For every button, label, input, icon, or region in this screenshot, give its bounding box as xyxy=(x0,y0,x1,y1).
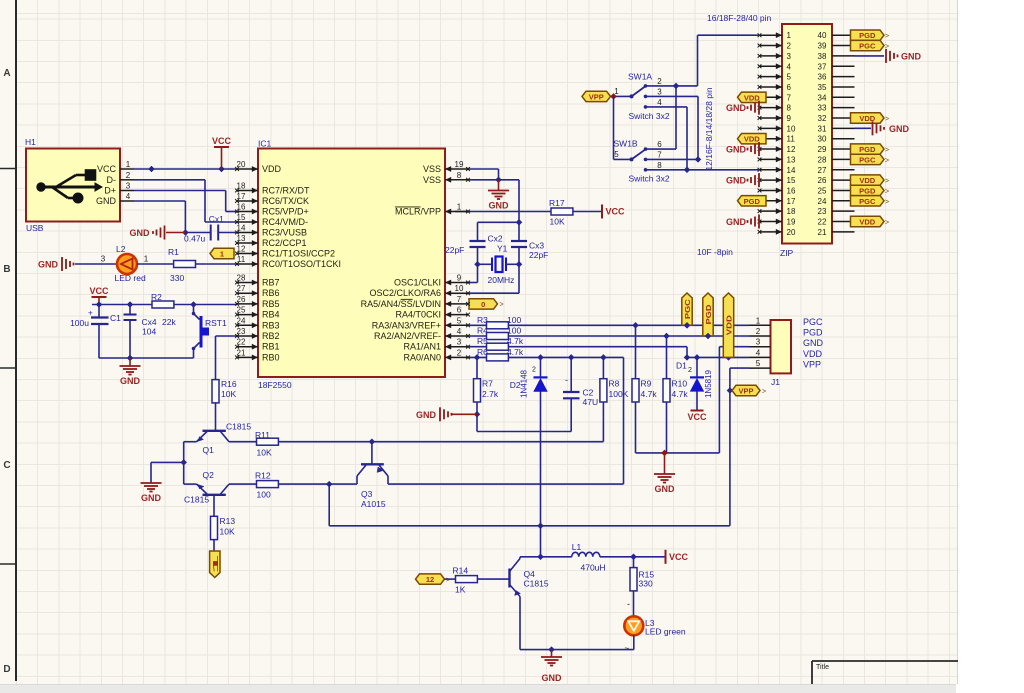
svg-text:>: > xyxy=(885,33,889,40)
svg-text:VSS: VSS xyxy=(423,175,441,185)
LED L3 (green) xyxy=(624,616,686,636)
svg-text:C: C xyxy=(3,460,10,471)
svg-text:R1: R1 xyxy=(168,247,179,257)
svg-text:GND: GND xyxy=(416,410,437,420)
wire to ground (Q1/Q2 emitters) xyxy=(151,462,184,483)
wire bottom rail xyxy=(520,647,634,653)
svg-text:17: 17 xyxy=(787,197,796,206)
svg-text:Q1: Q1 xyxy=(203,445,215,455)
ZIF pin 7 xyxy=(758,93,792,102)
connector J1 xyxy=(749,316,824,387)
wire VSS to crystal caps xyxy=(478,180,523,241)
ZIF pin 19 xyxy=(758,218,796,227)
wire VPP switched run xyxy=(329,484,730,529)
ground symbol VSS xyxy=(488,180,509,211)
svg-text:2: 2 xyxy=(657,77,662,86)
ZIF pin 4 xyxy=(758,62,792,71)
ground symbol at ZIF pin 31 xyxy=(855,121,910,135)
svg-text:>: > xyxy=(885,147,889,154)
wire R16 to Q1 base xyxy=(215,403,217,430)
ground symbol at ZIF pin 19 xyxy=(726,215,759,229)
svg-text:GND: GND xyxy=(726,103,747,113)
pin 22 RB1 xyxy=(235,338,279,352)
switch SW1B xyxy=(614,139,670,184)
svg-text:1: 1 xyxy=(126,160,131,169)
svg-text:>: > xyxy=(885,116,889,123)
resistor R7 2.7k xyxy=(474,354,499,402)
wire SW1B pin6 up xyxy=(646,86,677,149)
svg-text:39: 39 xyxy=(818,42,827,51)
svg-text:GND: GND xyxy=(130,228,151,238)
svg-text:VSS: VSS xyxy=(423,164,441,174)
svg-text:~: ~ xyxy=(625,644,630,653)
svg-text:GND: GND xyxy=(141,493,162,503)
svg-text:VCC: VCC xyxy=(669,552,689,562)
svg-text:11: 11 xyxy=(237,255,246,264)
svg-text:RC5/VP/D+: RC5/VP/D+ xyxy=(262,207,309,217)
wire SW1B pin7 xyxy=(646,158,699,160)
svg-text:1K: 1K xyxy=(455,585,466,595)
svg-text:RC3/VUSB: RC3/VUSB xyxy=(262,228,307,238)
power VCC (top) xyxy=(212,136,232,169)
wire LED to R1 xyxy=(137,255,174,265)
svg-text:C1815: C1815 xyxy=(226,422,251,432)
wire R13 to port xyxy=(213,540,215,551)
svg-text:100K: 100K xyxy=(609,389,629,399)
svg-text:RC4/VM/D-: RC4/VM/D- xyxy=(262,217,308,227)
port VDD at ZIF pin 11 xyxy=(738,134,767,144)
svg-text:104: 104 xyxy=(142,327,156,337)
wire Q2 base to R13 xyxy=(213,495,215,517)
power VCC at L1 xyxy=(666,550,689,564)
svg-text:10: 10 xyxy=(455,284,464,293)
svg-text:GND: GND xyxy=(726,176,747,186)
svg-text:C1815: C1815 xyxy=(524,579,549,589)
ZIF pin 34 xyxy=(818,93,855,102)
svg-text:470uH: 470uH xyxy=(581,563,606,573)
svg-text:100u: 100u xyxy=(70,318,89,328)
svg-text:VCC: VCC xyxy=(89,286,109,296)
svg-text:26: 26 xyxy=(237,295,246,304)
svg-text:RA2/AN2/VREF-: RA2/AN2/VREF- xyxy=(374,331,441,341)
wire Q4 collector row xyxy=(520,554,572,560)
resistor R10 4.7k xyxy=(663,333,688,453)
svg-text:1N5819: 1N5819 xyxy=(704,369,713,398)
wire R15 to LED xyxy=(627,591,634,616)
pin 13 RC2/CCP1 xyxy=(235,234,306,248)
svg-text:ZIP: ZIP xyxy=(780,248,794,258)
capacitor Cx2 22pF xyxy=(445,234,503,265)
svg-text:VDD: VDD xyxy=(803,349,823,359)
port VPP (bottom) xyxy=(732,385,766,395)
svg-text:PGD: PGD xyxy=(744,197,761,206)
svg-text:GND: GND xyxy=(889,124,910,134)
ZIF pin 11 xyxy=(758,135,796,144)
ZIF pin 20 xyxy=(758,228,796,237)
svg-text:22: 22 xyxy=(237,338,246,347)
svg-text:24: 24 xyxy=(818,197,827,206)
pin 28 RB7 xyxy=(235,274,279,288)
svg-text:VCC: VCC xyxy=(97,164,117,174)
port VPP at switch xyxy=(582,91,611,101)
wire J1 pin5 VPP down xyxy=(727,368,749,526)
svg-text:5: 5 xyxy=(614,150,619,159)
label 16/18F-28/40 pin xyxy=(707,13,772,23)
svg-text:16: 16 xyxy=(787,186,796,195)
svg-text:RC1/T1OSI/CCP2: RC1/T1OSI/CCP2 xyxy=(262,249,335,259)
svg-text:PGC: PGC xyxy=(803,317,823,327)
svg-text:R3: R3 xyxy=(477,315,488,325)
svg-text:21: 21 xyxy=(237,348,246,357)
svg-text:3: 3 xyxy=(457,338,462,347)
resistor R5 4.7k xyxy=(468,336,524,350)
svg-text:RB2: RB2 xyxy=(262,331,280,341)
pin 11 RC0/T1OSO/T1CKI xyxy=(235,255,341,269)
svg-text:2: 2 xyxy=(126,171,131,180)
svg-text:20: 20 xyxy=(237,160,246,169)
svg-text:PGD: PGD xyxy=(803,328,823,338)
port below R13 xyxy=(210,551,220,578)
wire MCLR to R17 xyxy=(455,211,551,213)
ZIF pin 10 xyxy=(758,124,796,133)
svg-text:Cx3: Cx3 xyxy=(529,241,544,251)
svg-text:4.7k: 4.7k xyxy=(672,389,689,399)
svg-text:1: 1 xyxy=(756,316,761,325)
ZIF pin 1 xyxy=(758,31,792,40)
port VDD at ZIF pin 22 xyxy=(851,216,890,226)
svg-text:PGD: PGD xyxy=(859,145,876,154)
svg-text:7: 7 xyxy=(787,93,792,102)
svg-text:19: 19 xyxy=(787,218,796,227)
svg-text:Cx2: Cx2 xyxy=(488,234,503,244)
svg-text:1: 1 xyxy=(220,250,224,259)
svg-text:D1: D1 xyxy=(676,361,687,371)
svg-text:>: > xyxy=(446,577,450,584)
svg-text:29: 29 xyxy=(818,145,827,154)
port at RC1 xyxy=(210,248,234,258)
svg-text:40: 40 xyxy=(818,31,827,40)
svg-text:6: 6 xyxy=(457,306,462,315)
svg-text:25: 25 xyxy=(818,186,827,195)
svg-text:10K: 10K xyxy=(221,389,236,399)
wire R6 row (VPP raw) xyxy=(508,357,623,484)
pin 1 MCLR/VPP xyxy=(395,203,470,217)
ground symbol at ZIF pin 38 xyxy=(855,49,922,63)
pin 20 VDD xyxy=(235,160,281,174)
resistor R2 22k xyxy=(151,292,176,327)
resistor R1 330 xyxy=(168,247,196,283)
svg-text:VCC: VCC xyxy=(606,207,626,217)
svg-text:26: 26 xyxy=(818,176,827,185)
svg-text:>: > xyxy=(500,302,504,309)
svg-text:3: 3 xyxy=(126,182,131,191)
crystal Y1 20MHz xyxy=(475,244,523,286)
svg-text:2: 2 xyxy=(457,348,462,357)
svg-text:H1: H1 xyxy=(25,137,36,147)
wire bottom rail to ground xyxy=(99,355,194,361)
diode D1 1N5819 xyxy=(676,354,713,409)
title block xyxy=(812,661,958,684)
svg-text:4: 4 xyxy=(657,98,662,107)
svg-text:34: 34 xyxy=(818,93,827,102)
svg-text:Switch 3x2: Switch 3x2 xyxy=(629,111,670,121)
svg-text:GND: GND xyxy=(489,201,510,211)
ZIF pin 23 xyxy=(818,207,855,216)
svg-text:0: 0 xyxy=(481,300,485,309)
svg-text:VPP: VPP xyxy=(589,92,604,101)
svg-text:GND: GND xyxy=(655,484,676,494)
svg-text:OSC1/CLKI: OSC1/CLKI xyxy=(394,278,441,288)
wire R11 to R8 (long) xyxy=(278,439,603,445)
svg-text:>: > xyxy=(885,220,889,227)
svg-text:20MHz: 20MHz xyxy=(488,275,515,285)
svg-text:VDD: VDD xyxy=(859,176,875,185)
wire R14 to Q4 xyxy=(477,578,508,580)
port at RA5 xyxy=(469,299,504,309)
port PGD at ZIF pin 29 xyxy=(851,144,890,154)
ground symbol at Cx1 xyxy=(130,226,186,240)
svg-text:R12: R12 xyxy=(255,471,271,481)
svg-text:20: 20 xyxy=(787,228,796,237)
wire Q4 emitter down xyxy=(519,597,521,650)
ground symbol below Cx4 xyxy=(120,358,141,386)
svg-text:RC2/CCP1: RC2/CCP1 xyxy=(262,238,307,248)
svg-text:USB: USB xyxy=(26,223,44,233)
svg-text:3: 3 xyxy=(101,255,106,264)
svg-text:13: 13 xyxy=(787,155,796,164)
resistor R16 10K xyxy=(212,379,237,403)
svg-text:>: > xyxy=(762,389,766,396)
transistor Q1 C1815 xyxy=(197,422,252,456)
svg-text:24: 24 xyxy=(237,316,246,325)
svg-text:23: 23 xyxy=(818,207,827,216)
capacitor Cx3 22pF xyxy=(511,241,548,265)
svg-text:4.7k: 4.7k xyxy=(507,347,524,357)
svg-text:38: 38 xyxy=(818,52,827,61)
svg-text:1: 1 xyxy=(614,87,619,96)
transistor Q3 A1015 xyxy=(357,442,388,509)
svg-text:R9: R9 xyxy=(641,379,652,389)
sheet border line xyxy=(0,0,16,681)
resistor R9 4.7k xyxy=(632,322,657,453)
diode D2 1N4148 xyxy=(510,354,548,556)
capacitor C2 47U xyxy=(563,354,598,431)
ZIF pin 28 xyxy=(818,155,855,164)
wire L1 to VCC xyxy=(600,554,665,560)
svg-text:R17: R17 xyxy=(549,198,565,208)
svg-text:22pF: 22pF xyxy=(445,245,464,255)
svg-text:GND: GND xyxy=(542,673,563,683)
svg-text:1: 1 xyxy=(211,555,220,574)
ZIF pin 3 xyxy=(758,52,792,61)
svg-text:6: 6 xyxy=(787,83,792,92)
wire R7 bottom rail xyxy=(474,402,571,432)
svg-text:>: > xyxy=(885,199,889,206)
wire VCC rail to RB5 xyxy=(92,302,237,308)
svg-text:3: 3 xyxy=(756,338,761,347)
ZIF pin 14 xyxy=(758,166,796,175)
ZIF pin 40 xyxy=(818,31,855,40)
wire SW1A pin2 to ZIF pin1 xyxy=(646,35,760,89)
svg-text:2: 2 xyxy=(688,367,692,374)
port VDD (vertical) xyxy=(723,293,733,357)
svg-text:4.7k: 4.7k xyxy=(507,336,524,346)
svg-text:8: 8 xyxy=(657,161,662,170)
svg-text:C1: C1 xyxy=(110,313,121,323)
port PGD (vertical) xyxy=(703,293,713,339)
wire SW1A pin4 down to pin8 row xyxy=(646,107,691,173)
ZIF pin 15 xyxy=(758,176,796,185)
svg-text:22: 22 xyxy=(818,218,827,227)
svg-text:11: 11 xyxy=(787,135,796,144)
wire PGC row (R3 to J1 pin1) xyxy=(508,322,749,328)
svg-text:C2: C2 xyxy=(583,388,594,398)
svg-text:1: 1 xyxy=(457,203,462,212)
svg-text:RA1/AN1: RA1/AN1 xyxy=(403,342,441,352)
svg-text:VDD: VDD xyxy=(262,164,282,174)
ZIF pin 24 xyxy=(818,197,855,206)
svg-text:RC6/TX/CK: RC6/TX/CK xyxy=(262,196,309,206)
power VCC (left) xyxy=(89,286,109,305)
port VDD at ZIF pin 26 xyxy=(851,175,890,185)
resistor R3 100 xyxy=(468,315,521,329)
svg-text:100: 100 xyxy=(507,315,521,325)
svg-text:1: 1 xyxy=(787,31,792,40)
wire R1 to RC0 xyxy=(196,263,238,265)
svg-text:VDD: VDD xyxy=(859,218,875,227)
resistor R8 100K xyxy=(600,354,629,441)
svg-text:D-: D- xyxy=(107,175,117,185)
svg-text:16: 16 xyxy=(237,203,246,212)
svg-text:J1: J1 xyxy=(771,377,780,387)
svg-text:SW1B: SW1B xyxy=(614,139,638,149)
svg-text:C1815: C1815 xyxy=(184,495,209,505)
wire USB GND down to Cx1 rail xyxy=(134,201,188,236)
ground symbol at ZIF pin 15 xyxy=(726,173,759,187)
svg-text:VPP: VPP xyxy=(738,387,753,396)
svg-text:8: 8 xyxy=(457,171,462,180)
svg-text:R2: R2 xyxy=(151,292,162,302)
svg-text:Q2: Q2 xyxy=(203,470,215,480)
ZIF pin 35 xyxy=(818,83,855,92)
transistor Q2 C1815 xyxy=(184,470,229,505)
svg-text:R8: R8 xyxy=(609,379,620,389)
svg-text:2: 2 xyxy=(532,367,536,374)
svg-text:18: 18 xyxy=(237,182,246,191)
svg-text:RA3/AN3/VREF+: RA3/AN3/VREF+ xyxy=(372,320,441,330)
svg-text:RB5: RB5 xyxy=(262,299,280,309)
svg-text:R4: R4 xyxy=(477,326,488,336)
svg-text:14: 14 xyxy=(787,166,796,175)
resistor R12 100 xyxy=(229,471,278,500)
inductor L1 470uH xyxy=(572,542,606,573)
svg-text:12/16F-8/14/18/28 pin: 12/16F-8/14/18/28 pin xyxy=(704,87,714,170)
resistor R13 10K xyxy=(211,516,236,540)
svg-text:4.7k: 4.7k xyxy=(641,389,658,399)
svg-text:330: 330 xyxy=(639,579,653,589)
svg-text:PGD: PGD xyxy=(704,304,713,325)
wire divider ground rail xyxy=(636,347,720,456)
svg-text:R11: R11 xyxy=(255,430,270,440)
svg-text:GND: GND xyxy=(726,145,747,155)
wire R17 to VCC xyxy=(573,211,601,213)
svg-text:VCC: VCC xyxy=(687,412,707,422)
svg-text:1N4148: 1N4148 xyxy=(520,369,529,398)
IC U1 (IC1 18F2550) xyxy=(258,139,445,391)
ZIF pin 2 xyxy=(758,42,792,51)
svg-text:15: 15 xyxy=(237,213,246,222)
pin 5 RA3/AN3/VREF+ xyxy=(372,316,470,330)
svg-text:VCC: VCC xyxy=(212,136,232,146)
label 10F -8pin xyxy=(697,247,733,257)
port PGC (vertical) xyxy=(682,293,692,328)
svg-text:19: 19 xyxy=(455,160,464,169)
svg-text:27: 27 xyxy=(818,166,827,175)
svg-text:VDD: VDD xyxy=(725,314,734,335)
svg-text:VDD: VDD xyxy=(744,93,760,102)
ZIF pin 16 xyxy=(758,186,796,195)
svg-text:Cx4: Cx4 xyxy=(142,317,157,327)
svg-text:D+: D+ xyxy=(104,186,116,196)
wire USB VCC to IC VDD xyxy=(134,168,237,170)
pin 21 RB0 xyxy=(235,348,279,362)
resistor R6 4.7k xyxy=(468,347,524,361)
svg-text:PGD: PGD xyxy=(859,186,876,195)
svg-text:PGC: PGC xyxy=(859,42,876,51)
port PGD at ZIF pin 17 xyxy=(738,196,767,206)
svg-text:GND: GND xyxy=(120,376,141,386)
pin 10 OSC2/CLKO/RA6 xyxy=(369,284,469,298)
svg-text:22pF: 22pF xyxy=(529,250,548,260)
power VCC right of R17 xyxy=(602,205,625,219)
port PGD at ZIF pin 25 xyxy=(851,185,890,195)
svg-text:RA5/AN4/SS/LVDIN: RA5/AN4/SS/LVDIN xyxy=(361,299,441,309)
ZIF pin 32 xyxy=(818,114,855,123)
svg-text:PGC: PGC xyxy=(683,298,692,319)
ground symbol left of R7 xyxy=(416,407,477,421)
wire RB2 to R16 xyxy=(216,336,238,380)
svg-text:VPP: VPP xyxy=(803,360,821,370)
svg-text:-: - xyxy=(565,375,568,385)
sheet zone letters xyxy=(3,68,10,675)
svg-text:>: > xyxy=(885,188,889,195)
port VDD at ZIF pin 7 xyxy=(738,92,767,102)
svg-text:10K: 10K xyxy=(257,448,272,458)
svg-text:IC1: IC1 xyxy=(258,139,272,149)
svg-text:23: 23 xyxy=(237,327,246,336)
wire USB D- to RC4 xyxy=(134,180,237,222)
pin 14 RC3/VUSB xyxy=(235,224,307,238)
wire GND to LED L2 xyxy=(75,255,117,265)
svg-text:5: 5 xyxy=(756,359,761,368)
svg-text:12: 12 xyxy=(237,245,246,254)
svg-text:100: 100 xyxy=(507,326,521,336)
svg-text:R14: R14 xyxy=(453,566,469,576)
svg-text:4: 4 xyxy=(756,348,761,357)
svg-text:100: 100 xyxy=(257,490,271,500)
svg-text:2: 2 xyxy=(756,327,761,336)
resistor R14 1K xyxy=(445,566,478,595)
svg-text:MCLR/VPP: MCLR/VPP xyxy=(395,207,441,217)
ZIF pin 39 xyxy=(818,42,855,51)
svg-text:RA0/AN0: RA0/AN0 xyxy=(403,352,441,362)
wire R12 to Q3 and VPP-raw xyxy=(278,481,623,487)
svg-text:32: 32 xyxy=(818,114,827,123)
svg-text:R5: R5 xyxy=(477,336,488,346)
svg-text:7: 7 xyxy=(457,295,462,304)
ZIF pin 21 xyxy=(818,228,855,237)
LED L2 (red) xyxy=(115,244,146,283)
